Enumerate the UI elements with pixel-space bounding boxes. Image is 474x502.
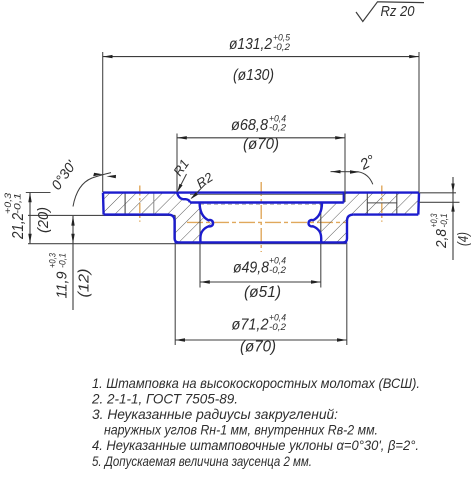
dimension text 21.2 [3,192,27,240]
svg-text:ø131,2: ø131,2 [229,36,272,53]
svg-text:-0,1: -0,1 [13,193,24,214]
centerline web horizontal [187,221,346,223]
svg-text:(ø130): (ø130) [233,67,274,84]
hatch section left [103,193,213,243]
svg-text:-0,1: -0,1 [58,253,69,268]
leader R2 [191,169,217,199]
svg-text:ø68,8: ø68,8 [231,117,268,134]
svg-text:2,8: 2,8 [433,228,450,249]
dimension text 11.9 [48,252,71,298]
svg-text:Rz 20: Rz 20 [381,3,416,20]
dimension text d49.8 [233,256,287,277]
svg-text:5. Допускаемая величина заусен: 5. Допускаемая величина заусенца 2 мм. [92,453,312,469]
extension line d49.8 right [320,203,322,288]
extension line d68.8 right [344,134,346,203]
centerline part axis vertical [260,182,262,252]
hatch section right [313,193,419,243]
forging outline flange bottom right [354,213,419,215]
forging outline inner wall left [200,203,213,243]
svg-text:ø71,2: ø71,2 [232,317,269,334]
svg-text:(4): (4) [455,232,472,246]
svg-text:наружных углов Rн-1 мм, внутре: наружных углов Rн-1 мм, внутренних Rв-2 … [104,422,378,438]
svg-text:1. Штамповка на высокоскоростн: 1. Штамповка на высокоскоростных молотах… [92,375,420,391]
angle 0d30 draft [48,157,116,207]
forging outline inner wall right [309,203,322,243]
dimension line 11.9 [71,216,74,310]
extension line d131.2 left [102,52,104,192]
dimension line d71.2 [175,338,347,341]
forging outline hub wall right with fillet [344,215,354,243]
svg-text:(ø70): (ø70) [243,136,279,153]
extension line d71.2 right [346,243,348,346]
bolt hole edge left outer [124,194,126,215]
svg-text:2. 2-1-1, ГОСТ 7505-89.: 2. 2-1-1, ГОСТ 7505-89. [91,391,238,407]
centerline bolt hole right [381,186,383,222]
extension line 2.8 upper [419,192,456,194]
bolt hole edge right inner [366,194,368,215]
dimension text d131.2 [229,33,291,54]
dimension text 2.8 [429,213,450,249]
svg-text:-0,2: -0,2 [269,265,287,276]
svg-text:-0,2: -0,2 [269,322,287,333]
extension line d68.8 left [176,134,178,193]
svg-text:(ø70): (ø70) [240,339,276,356]
forging outline right edge [417,193,420,215]
dimension line 2.8 [451,177,454,260]
forging outline recessed top surface [190,201,344,203]
dimension line 21.2 [28,193,31,244]
svg-text:11,9: 11,9 [54,271,71,299]
forging outline bottom surface [175,241,347,243]
dimension text d71.2 [232,313,287,334]
svg-text:4. Неуказанные штамповочные ук: 4. Неуказанные штамповочные уклоны α=0°3… [92,437,419,453]
forging outline right step [343,193,345,203]
machined far edge under rim [190,193,344,195]
svg-text:(ø51): (ø51) [244,284,281,301]
notes [91,375,420,469]
centerline bolt hole left [139,186,141,222]
extension line d131.2 right [418,52,420,192]
extension line part bottom [28,243,346,245]
svg-text:3. Неуказанные радиусы закругл: 3. Неуказанные радиусы закруглений: [92,406,338,422]
bolt hole bottom right [367,202,397,204]
bolt hole edge left inner [153,194,155,215]
extension line d71.2 left [174,215,176,345]
forging outline flange bottom left with fillet [104,215,179,243]
svg-text:21,2: 21,2 [10,213,27,240]
extension line height top left [26,192,51,194]
dimension line d49.8 [200,280,321,283]
leader R1 [170,156,192,192]
forging outline top surface [103,191,419,193]
surface finish symbol Rz 20 [356,2,424,22]
forging outline flash notch [177,193,190,203]
dimension line d68.8 [177,136,345,139]
extension line 2.8 lower [419,201,460,203]
dimension text d68.8 [231,114,287,135]
svg-text:ø49,8: ø49,8 [233,260,269,277]
extension line d49.8 left [199,203,201,288]
svg-text:(20): (20) [35,207,52,233]
svg-text:-0,2: -0,2 [269,123,287,134]
machined part line flange bottom left [28,214,175,216]
forging outline left edge [102,193,105,215]
dimension line d131.2 [103,55,419,58]
svg-text:(12): (12) [76,269,93,298]
angle 2d draft [331,152,379,185]
machined hidden edge mid [200,203,322,205]
bolt hole edge right outer [396,194,398,215]
svg-text:-0,1: -0,1 [439,214,450,228]
svg-text:-0,2: -0,2 [273,42,291,53]
